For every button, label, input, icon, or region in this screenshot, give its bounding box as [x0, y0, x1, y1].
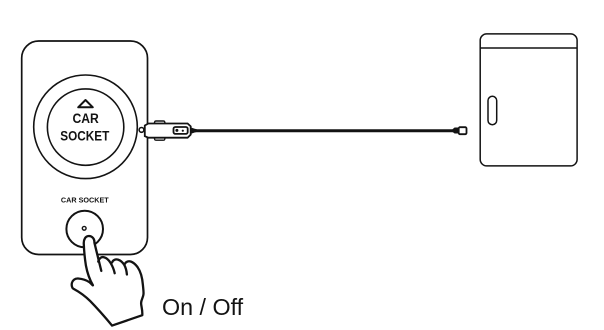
plug bottom contact bump [154, 138, 165, 141]
svg-text:CAR SOCKET: CAR SOCKET [61, 195, 109, 204]
svg-text:SOCKET: SOCKET [60, 128, 109, 144]
cable end connector [459, 127, 467, 134]
hand: knuckle hook 2 [112, 259, 127, 274]
svg-text:CAR: CAR [72, 110, 99, 126]
label CAR SOCKET (small) [61, 195, 109, 204]
plug body [145, 124, 191, 138]
svg-text:On / Off: On / Off [162, 294, 244, 320]
plug top contact bump [154, 121, 165, 124]
cable end neck [453, 128, 459, 134]
accessory box [480, 34, 577, 166]
triangle indicator [78, 100, 93, 107]
box lid line [480, 47, 577, 49]
hand: knuckle hook 1 [98, 257, 115, 273]
button center dot [82, 226, 86, 230]
hand silhouette fill [72, 236, 144, 326]
plug cable neck [190, 127, 196, 134]
label SOCKET (big) [60, 128, 109, 144]
plug indicator window [174, 127, 188, 134]
hand: knuckle hook 3 + outer edge + palm + thumb [72, 261, 144, 325]
plug tip nub [139, 127, 144, 132]
button circle [66, 211, 103, 248]
box slot pill [488, 96, 497, 124]
inner circle of socket [47, 89, 123, 165]
hand: index finger outline [84, 236, 102, 285]
window dot left [175, 129, 178, 132]
cable [194, 129, 454, 132]
label CAR (big) [72, 110, 99, 126]
window dot right [182, 130, 184, 132]
device body (car socket unit) [22, 41, 148, 255]
outer ring of socket [34, 75, 138, 179]
